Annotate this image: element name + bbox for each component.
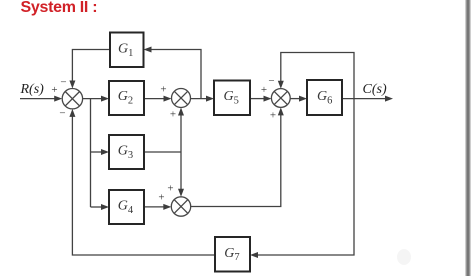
scrollbar gray bar at right edge — [465, 0, 470, 276]
wire G3 output to junction node D — [144, 151, 181, 153]
wire summer S2 output to G5 — [191, 98, 208, 100]
svg-text:+: + — [51, 84, 57, 96]
summing junction S2 — [172, 89, 191, 108]
block G4 — [109, 190, 144, 224]
arrowhead into S4 top (from G3, plus) — [178, 189, 184, 197]
wire summer S3 output to G6 — [290, 98, 300, 100]
wire G2 output to summer S2 — [144, 98, 165, 100]
wire branch to G4 input — [91, 206, 103, 208]
wire node D down into S4 top — [180, 152, 182, 190]
summing junction S3 — [271, 89, 290, 108]
summing junction S1 — [62, 89, 82, 109]
wire G6 output to C(s) — [342, 98, 386, 100]
wire takeoff node A down from S1 output to G4 row — [90, 99, 92, 207]
arrowhead into G6 — [299, 96, 307, 102]
wire summer S4 output right and up into S3 bottom — [191, 115, 281, 207]
arrowhead into summer S3 — [264, 96, 272, 102]
wire G5 output to summer S3 — [250, 98, 265, 100]
svg-text:+: + — [261, 84, 267, 96]
svg-text:−: − — [268, 75, 274, 87]
wire takeoff node C up over to S3 top (minus feedback around G6) — [281, 53, 354, 99]
wire takeoff node B up to G1 feedback — [151, 50, 202, 99]
arrowhead into summer S2 — [164, 96, 172, 102]
arrowhead into G3 — [101, 149, 109, 155]
block G2 — [109, 81, 144, 115]
arrowhead into G1 (feedback, pointing left) — [144, 47, 152, 53]
arrowhead C(s) output — [385, 96, 393, 102]
arrowhead into G4 — [101, 204, 109, 210]
wire R(s) input to summer S1 — [20, 98, 55, 100]
svg-text:−: − — [59, 108, 65, 120]
wire summer S1 output to G2 — [83, 98, 102, 100]
block G6 — [307, 80, 342, 115]
arrowhead into S1 top (from G1, minus) — [69, 81, 75, 89]
block G1 — [110, 33, 144, 68]
arrowhead into summer S1 — [54, 96, 62, 102]
svg-text:System II :: System II : — [21, 0, 98, 16]
faint smudge artifact — [397, 249, 411, 265]
svg-text:C(s): C(s) — [363, 82, 387, 97]
svg-text:+: + — [160, 84, 166, 96]
arrowhead into G7 (pointing left) — [250, 252, 258, 258]
summing junction S4 — [171, 197, 190, 216]
svg-text:R(s): R(s) — [20, 82, 45, 97]
block G7 — [215, 237, 250, 272]
arrowhead into S1 bottom (from G7, minus) — [69, 109, 75, 117]
block G3 — [109, 135, 144, 169]
wire takeoff node C down to G7 input — [258, 99, 355, 255]
arrowhead into S3 top (minus feedback) — [278, 81, 284, 89]
svg-text:+: + — [158, 192, 164, 204]
wire G1 output left and down into S1 top — [72, 50, 110, 82]
arrowhead into S3 bottom (from S4, plus) — [278, 107, 284, 115]
arrowhead into G5 — [206, 96, 214, 102]
svg-text:+: + — [167, 183, 173, 195]
svg-text:+: + — [170, 109, 176, 121]
arrowhead into S2 bottom (from G3, plus) — [178, 108, 184, 116]
arrowhead into G2 — [101, 96, 109, 102]
svg-text:+: + — [270, 110, 276, 122]
arrowhead into S4 left (from G4, plus) — [163, 204, 171, 210]
wire G4 output to summer S4 — [144, 206, 164, 208]
block G5 — [214, 81, 250, 116]
wire node D up into S2 bottom — [180, 115, 182, 153]
wire G7 output left and up into S1 bottom — [72, 116, 215, 255]
svg-text:−: − — [60, 77, 66, 89]
wire branch to G3 input — [91, 151, 103, 153]
